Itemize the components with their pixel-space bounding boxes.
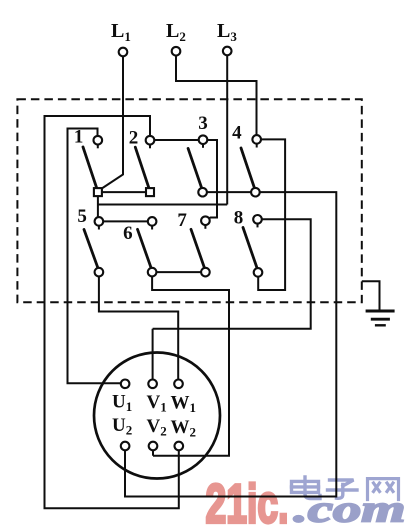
- switch8 bottom: [254, 268, 263, 277]
- stub switch8 top: [257, 224, 259, 228]
- switch4 bottom: [251, 188, 260, 197]
- wire L1 drop to switch1 bottom: [101, 57, 123, 190]
- switch3 top: [199, 135, 208, 144]
- wire switch1bottom-switch2bottom: [98, 191, 150, 193]
- wire switch1 top left-down to U1: [68, 129, 121, 384]
- blade switch 5: [84, 230, 98, 269]
- stub switch7 top: [204, 225, 206, 229]
- blade switch 6: [138, 229, 152, 268]
- motor terminal W2: [175, 442, 184, 451]
- wire switch2 top up-left-down to W2: [45, 116, 179, 508]
- switch7 bottom: [201, 268, 210, 277]
- wire switch8top right-down to V1: [153, 219, 311, 379]
- blade switch 7: [191, 229, 205, 268]
- switch5 bottom: [95, 268, 104, 277]
- switch5 top: [95, 217, 104, 226]
- stub switch1 top: [97, 145, 99, 149]
- wire enclosure to ground: [362, 281, 380, 311]
- wire switch5bottom to W1: [99, 276, 178, 379]
- switch8 top: [253, 215, 262, 224]
- switch blades: [83, 147, 257, 269]
- stub switch3 top: [202, 144, 204, 148]
- terminal L2: [172, 47, 181, 56]
- stub switch6 top: [151, 226, 153, 230]
- blade switch 8: [243, 228, 257, 269]
- wire switch4top right-down to switch8 bottom: [258, 139, 285, 290]
- watermark char 子: [328, 480, 358, 498]
- switch1 bottom square: [94, 188, 102, 196]
- watermark char 电: [292, 477, 321, 499]
- motor terminal V1: [148, 380, 157, 389]
- svg-text:7: 7: [177, 210, 187, 231]
- dashed enclosure box: [17, 99, 361, 302]
- blade switch 1: [83, 147, 97, 188]
- svg-text:4: 4: [232, 123, 242, 144]
- switch6 bottom: [148, 268, 157, 277]
- svg-text:5: 5: [77, 206, 87, 227]
- contact stubs under top terminals: [98, 144, 258, 230]
- motor terminal U2: [121, 442, 130, 451]
- svg-text:2: 2: [129, 127, 139, 148]
- stub switch4 top: [256, 144, 258, 148]
- svg-text:21ic.: 21ic.: [206, 473, 289, 525]
- svg-text:6: 6: [123, 223, 133, 244]
- wire L3 drop: [226, 56, 228, 205]
- wire switch2top-switch3top: [154, 139, 198, 141]
- motor circle: [94, 353, 220, 479]
- switch7 top: [201, 216, 210, 225]
- switch4 top: [252, 135, 261, 144]
- switch2 top: [146, 136, 155, 145]
- ground bar 2: [371, 318, 390, 321]
- svg-text:8: 8: [234, 208, 244, 229]
- wire L2 to switch4 top: [176, 56, 257, 136]
- wire switch5top-switch6top: [103, 220, 148, 222]
- ground bar 1: [366, 310, 395, 313]
- blade switch 3: [188, 148, 202, 188]
- ground: [366, 311, 395, 325]
- blade switch 4: [241, 148, 255, 188]
- motor terminal U1: [121, 380, 130, 389]
- wire switch3top right and down to switch7 top: [207, 140, 217, 220]
- switch6 top: [148, 217, 157, 226]
- ground bar 3: [375, 324, 386, 326]
- blade switch 2: [135, 147, 149, 188]
- wire switch6bottom down-right-down to V2: [152, 276, 229, 455]
- watermark char 网: [368, 479, 399, 500]
- motor terminal W1: [174, 380, 183, 389]
- terminal L3: [223, 47, 232, 56]
- svg-text:3: 3: [198, 113, 208, 134]
- stub switch5 top: [98, 226, 100, 230]
- wire switch6bottom-switch7bottom: [156, 271, 201, 273]
- terminal L1: [119, 48, 128, 57]
- switch3 bottom: [198, 188, 207, 197]
- wire switch1bottom down to switch5top: [97, 196, 99, 217]
- stub switch2 top: [149, 145, 151, 149]
- wire tee line y204: [98, 204, 227, 206]
- switch2 bottom square: [146, 188, 154, 196]
- svg-text:1: 1: [74, 127, 84, 148]
- terminal circles: [94, 47, 263, 451]
- switch1 top: [94, 136, 103, 145]
- watermark 21ic.com: [206, 473, 406, 525]
- wire switch3/4 bottoms right-down to U2: [125, 192, 336, 496]
- motor terminal V2: [149, 442, 158, 451]
